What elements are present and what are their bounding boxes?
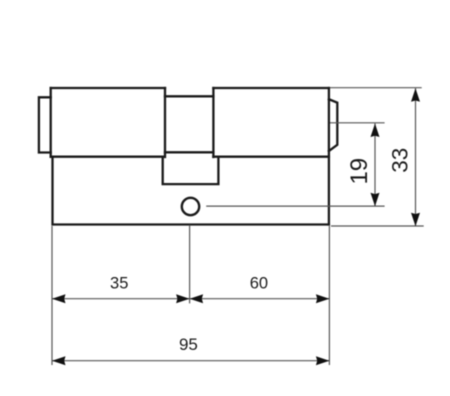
arrow 19 down [371, 193, 380, 207]
dimension line 95 [52, 360, 329, 362]
cam box [163, 157, 219, 184]
svg-text:35: 35 [110, 274, 128, 292]
plug recess left edge [164, 88, 166, 157]
plug recess right edge [212, 88, 214, 157]
arrow 60 left [190, 294, 204, 303]
extension line right [328, 226, 330, 365]
dimension line 33 [415, 88, 417, 226]
body right edge / right housing edge [328, 88, 330, 225]
arrow 35 right [176, 294, 190, 303]
arrow 95 left [52, 356, 66, 365]
svg-text:33: 33 [388, 148, 413, 173]
left end cap [39, 97, 51, 152]
plug recess top edge [165, 95, 213, 97]
leader line 33 top [330, 87, 422, 89]
dimension line 35/60 [52, 298, 329, 300]
plug recess bottom edge [165, 151, 213, 153]
left housing block top [51, 87, 165, 89]
svg-text:19: 19 [346, 158, 373, 185]
right housing block top [213, 87, 329, 89]
body top edge left segment [51, 156, 163, 158]
cylinder body plate [53, 157, 329, 225]
leader line 19 top [330, 122, 385, 124]
arrow 33 up [411, 88, 420, 102]
extension line left [51, 226, 53, 365]
arrow 35 left [52, 294, 66, 303]
arrow 19 up [371, 124, 380, 138]
arrow 60 right [316, 294, 330, 303]
body top edge right segment [213, 156, 329, 158]
svg-text:95: 95 [179, 335, 198, 354]
right end cap (chamfered) [329, 99, 337, 151]
leader line 33 bottom [331, 225, 424, 227]
left housing block left edge [50, 88, 52, 157]
dimension line 19 [374, 124, 376, 207]
svg-text:60: 60 [250, 274, 268, 292]
fixing screw hole [182, 198, 199, 215]
leader line screw hole centre [206, 205, 384, 207]
arrow 95 right [316, 356, 330, 365]
extension line middle (cam centre) [189, 225, 191, 303]
arrow 33 down [411, 213, 420, 227]
